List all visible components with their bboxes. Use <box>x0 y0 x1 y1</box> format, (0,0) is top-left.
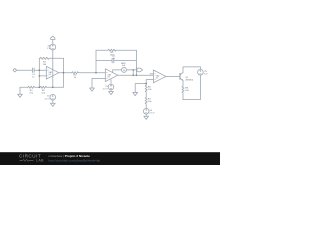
svg-text:9 V: 9 V <box>204 74 208 76</box>
junction rail left <box>39 87 41 89</box>
svg-text:5/2: 5/2 <box>49 74 52 76</box>
svg-text:2N3904: 2N3904 <box>185 80 193 82</box>
component labels <box>29 45 208 114</box>
wire OA1 plus input stub <box>39 75 46 77</box>
wire OA3 output <box>166 75 180 77</box>
capacitor C2 branch <box>96 60 136 62</box>
ground G1 <box>18 87 23 97</box>
ground G5 <box>144 116 149 119</box>
voltage source V2 <box>50 94 56 100</box>
junction ammeter line <box>132 69 134 71</box>
resistor R6 <box>145 85 147 97</box>
wire input to capacitor <box>17 69 33 71</box>
wire capacitor to op-amp input <box>34 69 46 71</box>
voltage source V3 <box>50 44 56 50</box>
wire ammeter branch <box>113 70 137 73</box>
port OUT flag <box>137 68 143 72</box>
ground G3 <box>90 88 95 91</box>
wire OA2 plus to ground <box>92 78 105 88</box>
op-amp OA2 <box>105 69 118 82</box>
svg-text:2.5 V: 2.5 V <box>103 88 109 90</box>
svg-text:5/2: 5/2 <box>156 78 159 80</box>
footer text <box>49 154 101 162</box>
footer logo CIRCUIT LAB <box>19 154 44 163</box>
node flag VCC <box>51 36 55 44</box>
resistor R1 <box>28 86 40 88</box>
wire OA3 minus stub <box>150 73 154 75</box>
junction input node <box>39 69 41 71</box>
capacitor C3 <box>32 68 34 72</box>
resistor R9 <box>39 86 63 88</box>
wire emitter <box>182 81 184 86</box>
junction chain top <box>145 83 147 85</box>
wire collector to top <box>183 67 200 73</box>
resistor R2 <box>39 57 63 59</box>
junction OA1 output <box>63 72 65 74</box>
svg-text:2.5 V: 2.5 V <box>149 113 155 115</box>
voltage source V1 <box>108 84 114 90</box>
svg-text:http://circuitlab.com/c/kwa5b6: http://circuitlab.com/c/kwa5b64msh4qt/ <box>49 158 101 162</box>
junction OA2 input node <box>95 72 97 74</box>
wire feedback left vertical mid <box>95 50 97 72</box>
junction plus input node <box>39 75 41 77</box>
resistor R7 <box>145 97 147 108</box>
wire feedback right vertical mid <box>135 50 137 75</box>
ground G6 <box>133 92 138 95</box>
wire V5 down right side <box>183 75 200 100</box>
wire ground flag branch <box>135 84 146 93</box>
svg-text:2.5 V: 2.5 V <box>44 98 50 100</box>
svg-text:micaelsav | Projeto 3 Nicaole: micaelsav | Projeto 3 Nicaole <box>49 154 91 158</box>
voltage source V4 <box>143 108 149 114</box>
resistor R5 <box>96 49 136 51</box>
junction rail supply <box>52 87 54 89</box>
op-amp OA3 <box>153 70 166 83</box>
transistor Q1 <box>179 73 181 79</box>
junction bus right <box>136 74 138 76</box>
wire output bus <box>118 74 154 76</box>
port IN <box>13 68 17 72</box>
wire feedback left vertical <box>38 58 40 87</box>
wire junction drop <box>132 70 134 75</box>
op-amp OA1 <box>46 66 59 79</box>
wire OA1 output <box>59 72 72 74</box>
svg-text:5/2: 5/2 <box>108 77 111 79</box>
footer bar <box>0 152 220 165</box>
junction bus left <box>132 74 134 76</box>
ground G4 <box>109 92 114 95</box>
wire feedback right vertical <box>63 58 65 87</box>
wire OA3 plus to chain <box>146 80 153 85</box>
voltage source V5 <box>199 67 201 70</box>
svg-text:LAB: LAB <box>36 159 44 163</box>
ground G2 <box>50 103 55 106</box>
resistor R3 <box>72 72 97 74</box>
wire OA2 vminus stub <box>110 80 112 85</box>
wire rail bottom left <box>20 86 28 88</box>
wire OA2 input <box>96 72 105 74</box>
ammeter AM1 <box>122 67 127 72</box>
resistor R8 <box>182 86 184 100</box>
wire supply V3 down to rail <box>52 50 54 87</box>
